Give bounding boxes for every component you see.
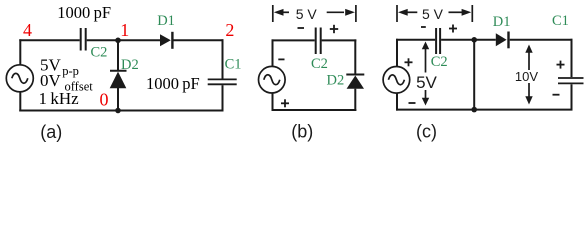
svg-text:C2: C2 [311,56,328,72]
svg-text:C2: C2 [91,44,108,60]
svg-text:D2: D2 [121,57,139,73]
svg-text:C2: C2 [431,54,448,70]
svg-text:1: 1 [120,20,129,40]
svg-text:D1: D1 [157,13,175,29]
svg-text:D2: D2 [327,73,345,89]
svg-text:0: 0 [100,89,109,109]
svg-text:5 V: 5 V [422,6,444,22]
svg-text:5 V: 5 V [296,6,318,22]
svg-text:(b): (b) [291,121,313,141]
svg-text:(c): (c) [416,121,437,141]
svg-text:5V: 5V [416,73,437,92]
svg-text:10V: 10V [515,69,538,84]
svg-text:p-p: p-p [62,64,79,78]
svg-text:1000 pF: 1000 pF [57,3,111,22]
svg-text:1000 pF: 1000 pF [146,74,200,93]
svg-text:1 kHz: 1 kHz [39,89,80,108]
svg-text:D1: D1 [493,14,511,30]
svg-text:4: 4 [23,20,32,40]
svg-text:C1: C1 [552,13,569,29]
svg-text:0V: 0V [40,71,62,90]
svg-text:2: 2 [225,20,234,40]
svg-text:(a): (a) [40,122,62,142]
svg-text:C1: C1 [225,57,242,73]
